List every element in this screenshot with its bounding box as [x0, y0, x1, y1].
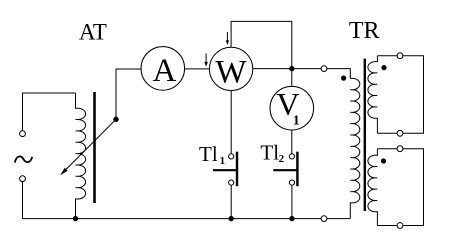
svg-text:W: W	[215, 54, 247, 90]
svg-text:AT: AT	[79, 20, 107, 45]
svg-text:1: 1	[293, 114, 300, 129]
svg-text:Tl: Tl	[199, 142, 218, 166]
svg-text:Tl: Tl	[260, 140, 279, 164]
svg-text:1: 1	[220, 155, 226, 167]
svg-text:2: 2	[279, 153, 285, 165]
svg-text:TR: TR	[349, 18, 380, 44]
svg-text:A: A	[152, 53, 176, 89]
